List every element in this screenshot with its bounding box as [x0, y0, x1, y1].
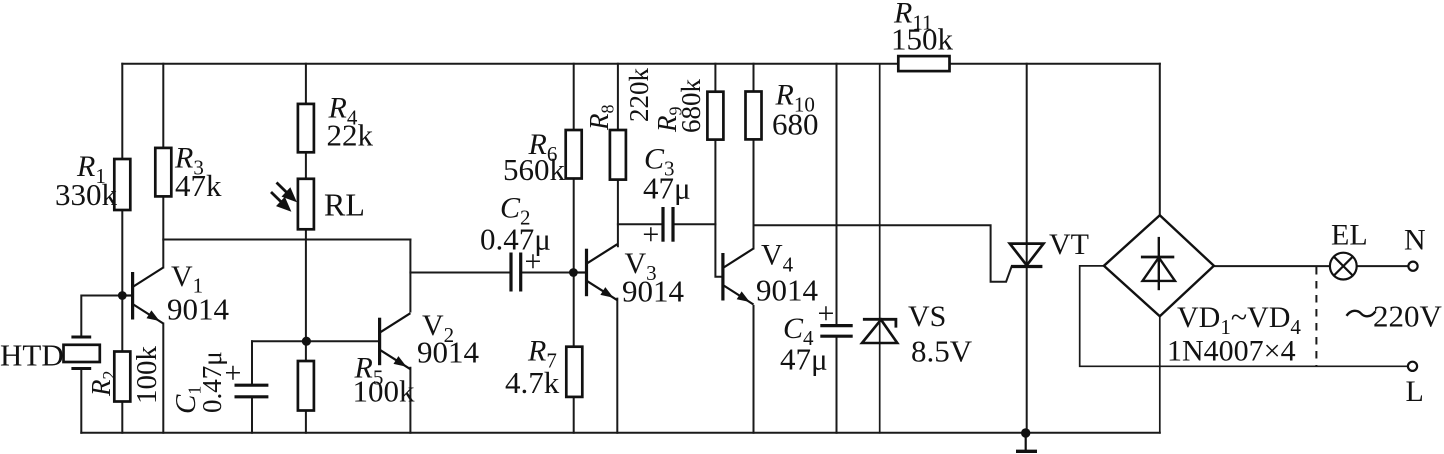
- capacitor C2: [511, 253, 521, 292]
- capacitor C4: [820, 326, 852, 337]
- svg-text:9014: 9014: [167, 292, 230, 327]
- wire bridge top: [1159, 64, 1161, 215]
- svg-text:HTD: HTD: [0, 338, 64, 373]
- wire V3 emitter: [616, 299, 618, 433]
- resistor R1: [114, 159, 130, 210]
- wire VS branch: [879, 64, 881, 433]
- svg-text:EL: EL: [1331, 219, 1368, 252]
- svg-text:0.47μ: 0.47μ: [197, 351, 227, 413]
- svg-text:+: +: [642, 218, 659, 251]
- wire C2 link: [410, 272, 573, 274]
- resistor R5: [298, 361, 314, 411]
- resistor R11: [898, 56, 949, 71]
- transistor V4: [723, 249, 754, 305]
- svg-text:9014: 9014: [417, 335, 480, 370]
- junction dot V1 base: [118, 291, 127, 300]
- wire bridge to lamp: [1214, 265, 1330, 267]
- wire V1C to V2C link: [163, 239, 410, 241]
- wire bridge bottom: [1159, 316, 1161, 433]
- svg-text:22k: 22k: [327, 118, 374, 153]
- transistor V3: [573, 244, 617, 300]
- resistor R10: [746, 92, 762, 140]
- zener diode VS: [862, 319, 897, 343]
- wire R6-R7 branch: [573, 64, 575, 433]
- resistor R9: [707, 92, 723, 140]
- wire C1 leads: [251, 341, 253, 433]
- wire R9 branch: [715, 64, 723, 277]
- wire C4 branch: [836, 64, 838, 433]
- junction dot V3 base node: [569, 268, 578, 277]
- svg-text:680k: 680k: [676, 79, 706, 134]
- svg-text:680: 680: [772, 107, 819, 142]
- terminal L: [1408, 362, 1417, 371]
- svg-text:+: +: [225, 357, 242, 390]
- svg-text:100k: 100k: [131, 346, 163, 405]
- wire node C1/R5/V2 base: [252, 340, 380, 342]
- svg-text:330k: 330k: [55, 177, 118, 212]
- capacitor C3: [663, 207, 673, 242]
- wire top rail: [122, 63, 1160, 65]
- wire lamp to N terminal: [1357, 265, 1409, 267]
- capacitor C1: [235, 385, 269, 397]
- wire V4 emitter: [753, 306, 755, 433]
- svg-text:RL: RL: [324, 187, 365, 223]
- resistor R6: [566, 130, 582, 179]
- svg-text:9014: 9014: [622, 274, 685, 309]
- wire HTD branch: [81, 296, 122, 433]
- bridge rectifier VD1-VD4: [1104, 215, 1214, 316]
- svg-text:VS: VS: [908, 300, 946, 333]
- wire V2 collector: [409, 240, 411, 312]
- transistor V1: [122, 268, 163, 324]
- dashed line lamp group: [1315, 267, 1317, 366]
- ground: [1016, 433, 1037, 451]
- resistor R8: [610, 130, 626, 180]
- svg-text:220k: 220k: [624, 68, 654, 123]
- resistor R3: [155, 148, 171, 197]
- photoresistor RL: [298, 179, 314, 230]
- resistor R2: [114, 352, 130, 402]
- svg-text:L: L: [1406, 375, 1424, 408]
- wire C3 link: [618, 223, 716, 225]
- piezo transducer HTD: [64, 337, 100, 369]
- svg-text:47k: 47k: [175, 168, 222, 203]
- svg-text:560k: 560k: [503, 152, 566, 187]
- svg-text:47μ: 47μ: [780, 342, 828, 377]
- svg-text:+: +: [525, 245, 542, 278]
- wire V2 emitter: [409, 368, 411, 433]
- svg-text:N: N: [1404, 224, 1426, 257]
- resistor R4: [298, 104, 314, 152]
- svg-text:150k: 150k: [891, 22, 954, 57]
- resistor R7: [566, 347, 582, 397]
- wire V1 emitter: [162, 324, 164, 433]
- svg-text:220V: 220V: [1373, 299, 1443, 334]
- svg-text:47μ: 47μ: [643, 171, 691, 206]
- wire R1-R2 branch: [121, 64, 123, 433]
- svg-text:100k: 100k: [353, 374, 416, 409]
- transistor V2: [380, 313, 411, 369]
- wire R5 lead: [305, 341, 307, 433]
- wire VT branch: [1026, 64, 1028, 433]
- wire R3 / V1 collector branch: [162, 64, 164, 268]
- thyristor VT: [1010, 244, 1044, 267]
- wire bottom rail: [81, 432, 1160, 434]
- svg-text:1N4007×4: 1N4007×4: [1167, 335, 1296, 368]
- svg-text:4.7k: 4.7k: [505, 365, 560, 400]
- lamp EL: [1330, 253, 1357, 280]
- svg-text:VD1~VD4: VD1~VD4: [1177, 301, 1301, 339]
- terminal N: [1408, 262, 1417, 271]
- junction dot V2 base node: [302, 337, 311, 346]
- svg-text:VT: VT: [1049, 228, 1089, 261]
- wire bridge to L terminal: [1080, 266, 1408, 366]
- wire R4-RL branch: [305, 64, 307, 341]
- junction dot VT cathode at ground: [1021, 428, 1030, 437]
- wire R10 / V4 collector: [753, 64, 755, 249]
- photoresistor RL light arrows: [271, 183, 294, 210]
- svg-text:9014: 9014: [756, 273, 819, 308]
- svg-text:8.5V: 8.5V: [911, 334, 973, 369]
- svg-text:+: +: [818, 297, 835, 330]
- wire R8 / V3 collector: [617, 64, 619, 246]
- wire V4 collector to VT gate: [754, 225, 1012, 282]
